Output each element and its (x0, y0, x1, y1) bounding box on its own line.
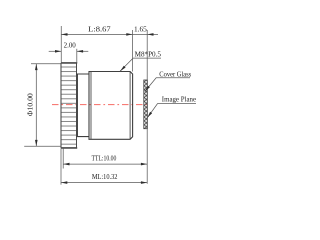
svg-text:Image Plane: Image Plane (162, 96, 196, 104)
svg-text:L:8.67: L:8.67 (88, 27, 111, 34)
svg-text:Cover Glass: Cover Glass (159, 70, 191, 78)
svg-text:1.65: 1.65 (134, 26, 147, 33)
svg-text:ML:10.32: ML:10.32 (92, 174, 118, 181)
svg-text:2.00: 2.00 (64, 43, 77, 50)
svg-text:TTL:10.00: TTL:10.00 (92, 156, 117, 163)
svg-text:Φ10.00: Φ10.00 (27, 93, 34, 117)
svg-text:M8*P0.5: M8*P0.5 (135, 51, 162, 58)
